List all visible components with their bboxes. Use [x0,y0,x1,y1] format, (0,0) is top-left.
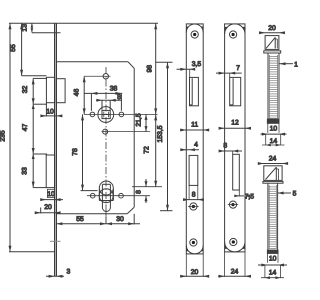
case top chamfer [128,62,134,69]
vertical centerline [105,67,107,224]
dim 32 line [32,78,35,104]
dim 3 stulp [46,275,64,278]
svg-text:5: 5 [293,191,297,198]
dim 33 line [32,154,35,188]
plate A top hole [191,31,198,38]
dim 12 arrows plate B [219,127,251,130]
dim 7 plate B [216,72,242,78]
dim 4 arrows plate A [180,148,199,151]
svg-text:11: 11 [191,121,198,128]
horizontal centerline follower [84,113,158,115]
plate B top hole [230,31,237,38]
dim 55-30 bottom line [56,210,140,225]
ext line case top right [156,61,173,63]
latch head rect [46,77,54,102]
dim 47 line [32,104,35,154]
side view bottom: shaft [268,183,278,250]
cylinder upper circle [99,181,113,195]
svg-text:20: 20 [191,269,199,276]
label 10 deadbolt box [47,189,54,197]
ext line latch top [33,77,47,79]
bottom small hole [102,129,151,134]
plate A outline [186,24,203,254]
dim 78 line [81,114,98,190]
ext line cylinder center right [132,186,162,188]
svg-text:20: 20 [268,25,276,32]
dim 8 follower [96,99,122,110]
cylinder body rect sides [98,189,100,201]
svg-text:72: 72 [144,146,151,154]
svg-text:20: 20 [44,204,52,211]
deadbolt head rect [46,155,54,188]
dim 20 deadbolt arrows [35,208,61,215]
follower square [102,110,110,118]
svg-text:3: 3 [67,269,71,276]
dim 13 line [30,23,33,32]
svg-text:24: 24 [231,269,239,276]
dim 3.5 plate A [177,68,196,78]
plate A deadbolt slot [189,155,198,185]
ext line deadbolt top [33,153,47,155]
side view top: dim line y145 [262,144,285,147]
svg-text:153,5: 153,5 [157,125,164,142]
svg-text:14: 14 [269,269,277,276]
side view bottom: dim arrows y265 [258,264,287,267]
follower side hole right [119,112,124,117]
dim 8 arrows plate B [219,150,242,155]
svg-text:46: 46 [74,89,81,97]
side view bottom: dim 24 [258,162,288,165]
svg-text:47: 47 [22,124,29,132]
svg-text:38: 38 [110,85,118,92]
plate B bottom hole [230,238,237,245]
svg-text:8: 8 [136,190,143,194]
cylinder stem left [101,184,103,207]
dim 38 line [84,92,122,111]
dim 55 vertical line [20,23,23,76]
svg-text:30: 30 [116,216,124,223]
svg-text:10: 10 [270,126,278,133]
svg-text:12: 12 [231,119,239,126]
side view top: latch head box [265,36,279,50]
plate A bottom hole [190,239,197,246]
side view top: dim 1 leader [280,62,294,65]
faceplate screw tick bottom [50,240,61,242]
dim 235 line [9,23,12,252]
dim 21.5 line [145,114,148,131]
svg-text:235: 235 [0,130,7,142]
top hole [84,74,110,79]
case bottom chamfer [127,207,134,214]
svg-text:32: 32 [22,86,29,94]
dim 20 plate A [180,254,209,278]
cylinder stem right [109,184,111,207]
plate B deadbolt slot [233,154,240,190]
side view bottom: deadbolt head box [264,166,282,181]
svg-text:7: 7 [236,65,240,72]
latch inner rect [56,79,65,103]
svg-text:98: 98 [147,65,154,73]
side view bottom: bottom bar [267,250,278,253]
cylinder keyway chord [102,183,110,185]
dim 8 cylinder right [145,179,148,203]
svg-text:8: 8 [223,143,227,150]
svg-text:8: 8 [117,94,121,101]
plate B outline [225,24,245,252]
dim 46 line [83,76,86,114]
side view top: 10 box [268,123,279,133]
svg-text:78: 78 [72,148,79,156]
dim 98 line [154,23,157,114]
dim 11 arrows plate A [180,129,209,132]
side view bottom: 14 exts [265,265,281,278]
cylinder bottom arc [102,208,110,212]
bottom extension line [9,251,55,253]
svg-text:8: 8 [192,192,196,199]
side view bottom: dim 5 leader [278,192,291,195]
side view top: 14 exts [266,134,281,145]
dim 24 plate B [218,252,251,278]
horizontal centerline cylinder holes [87,195,150,197]
svg-text:3,5: 3,5 [192,61,202,68]
case right edge [133,68,135,207]
svg-text:33: 33 [22,167,29,175]
dim 153.5 line [160,62,173,210]
side view top: dim arrows y134 [261,133,287,136]
ext line deadbolt bottom [33,187,46,189]
cylinder side hole left [90,193,95,198]
svg-text:7,5: 7,5 [245,193,255,200]
plate A mid hole [188,203,198,210]
ext line latch top [22,75,47,77]
svg-text:21,5: 21,5 [136,113,143,126]
side view bottom: dim line y277.7 [261,276,284,279]
top extension line [9,22,158,24]
plate A latch slot [190,77,199,105]
svg-text:4: 4 [194,142,198,149]
side view bottom: plate lip [263,181,283,183]
svg-text:10: 10 [269,255,277,262]
side view top: bottom bar [267,119,279,123]
side view top: dim 20 [259,31,285,34]
follower circle [98,107,114,123]
dim 72 line [154,114,157,186]
ext line latch bottom [33,103,47,105]
dim 8 arrows plate A [183,185,204,201]
svg-text:24: 24 [269,156,277,163]
svg-text:13: 13 [21,24,28,32]
cylinder lower circle [99,189,113,203]
case bottom edge [56,213,127,215]
follower side hole left [90,112,95,117]
dim 7.5 plate B [234,190,250,197]
side view top: shaft [268,53,279,119]
cylinder side hole right [119,193,124,198]
dim 10 latch arrows [40,103,62,118]
svg-text:1: 1 [294,61,298,68]
side view bottom: 10 box [267,253,278,262]
faceplate back line [55,23,57,276]
side view top: plate lip [264,51,281,53]
plate B latch slot [230,77,241,105]
dim 10 deadbolt arrows [40,198,63,201]
svg-text:10: 10 [46,109,54,116]
faceplate front line [54,23,56,276]
svg-text:10: 10 [47,191,55,198]
ext line y32.5 [32,32,61,34]
case top edge [56,61,128,63]
plate B mid hole [228,201,238,208]
svg-text:55: 55 [76,216,84,223]
svg-text:55: 55 [10,44,17,52]
